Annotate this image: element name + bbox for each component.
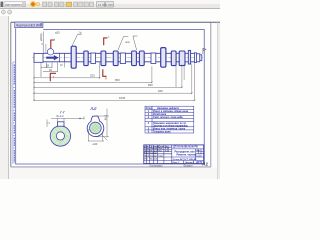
keyway arrow xyxy=(46,55,58,60)
cam lobe 5 xyxy=(139,51,144,66)
svg-text:1005: 1005 xyxy=(119,96,126,100)
svg-text:Сталь 45 ГОСТ 1050-88: Сталь 45 ГОСТ 1050-88 xyxy=(173,158,197,161)
svg-text:⌀25: ⌀25 xyxy=(55,31,60,35)
toolbar combobox xyxy=(4,2,26,7)
section G bore xyxy=(56,132,64,140)
short dims under right shaft xyxy=(176,65,184,88)
cam lobe 4 xyxy=(132,51,137,66)
canvas background xyxy=(0,0,220,179)
cam lobe 1 xyxy=(84,51,88,66)
svg-text:650: 650 xyxy=(115,78,120,82)
svg-text:1:2,5: 1:2,5 xyxy=(196,155,202,157)
svg-text:Сидор: Сидор xyxy=(150,153,157,155)
svg-text:525: 525 xyxy=(90,74,95,78)
left vertical dim xyxy=(34,32,43,102)
cam lobe 3 xyxy=(113,51,118,66)
svg-text:⌀40: ⌀40 xyxy=(93,142,98,146)
section L crosshatch xyxy=(91,123,100,133)
svg-text:Лист 1: Лист 1 xyxy=(173,162,180,164)
document tab xyxy=(15,22,43,28)
svg-text:пов: пов xyxy=(125,40,130,44)
section L cam outline xyxy=(87,116,104,137)
shaft band xyxy=(43,53,195,62)
section G circle xyxy=(50,126,70,146)
svg-text:Трещины вала: Трещины вала xyxy=(153,131,171,134)
svg-text:2ф: 2ф xyxy=(79,31,82,34)
dim line 4 xyxy=(34,65,182,88)
svg-text:Нкон: Нкон xyxy=(144,155,150,157)
toolbar combo arrow xyxy=(22,2,25,6)
svg-text:Сидор: Сидор xyxy=(150,155,157,157)
svg-text:Л-Л: Л-Л xyxy=(90,107,97,111)
panel icon 2 xyxy=(8,10,12,14)
svg-text:940: 940 xyxy=(158,89,163,93)
svg-text:г: г xyxy=(54,38,55,41)
window right border xyxy=(217,22,219,179)
journal small 3 xyxy=(151,53,156,64)
shaft dividers xyxy=(60,53,65,62)
svg-text:8+0.2: 8+0.2 xyxy=(57,114,65,118)
end cap xyxy=(34,54,43,63)
svg-text:Формат: Формат xyxy=(184,164,194,168)
section mark G bottom xyxy=(50,73,56,81)
section G dims xyxy=(47,118,84,127)
journal mid xyxy=(161,48,166,68)
right step a xyxy=(194,53,196,63)
cam lobe 6 xyxy=(171,51,176,66)
svg-text:ДП 02.06.086.00.00 РВ: ДП 02.06.086.00.00 РВ xyxy=(173,147,198,149)
section mark G top xyxy=(51,40,55,48)
left column vertical texts xyxy=(13,65,15,163)
svg-text:Козлов: Козлов xyxy=(150,159,158,161)
title block xyxy=(144,145,204,164)
parts table xyxy=(145,106,194,133)
left panel xyxy=(0,16,8,179)
svg-text:Смят. шпоноч. паза шейк.: Смят. шпоноч. паза шейк. xyxy=(153,116,184,119)
leader 2 xyxy=(118,36,128,50)
journal J1 xyxy=(71,46,76,68)
toolbar icon folder xyxy=(66,2,72,6)
right flag symbol xyxy=(203,48,206,54)
svg-text:Чертеж БЕЗ ИМ: Чертеж БЕЗ ИМ xyxy=(16,24,41,28)
centerline xyxy=(32,56,203,58)
svg-text:40.2: 40.2 xyxy=(103,114,107,120)
small dim texts above shaft xyxy=(55,31,130,44)
toolbar icons gray xyxy=(43,2,65,7)
app background right of window xyxy=(218,22,221,179)
toolbar xyxy=(0,0,220,9)
dim line 6 xyxy=(34,62,195,101)
extension line left circle xyxy=(45,44,47,53)
section mark L bottom xyxy=(103,69,107,76)
section L green circle xyxy=(90,122,102,134)
svg-text:Ткон: Ткон xyxy=(144,153,149,155)
svg-text:Распределит. вал: Распределит. вал xyxy=(175,152,196,154)
toolbar buttons right xyxy=(97,2,114,7)
section L dims xyxy=(88,109,109,142)
cam lobe 7 xyxy=(179,51,185,66)
section mark L top xyxy=(104,38,108,45)
svg-text:14 003 049: 14 003 049 xyxy=(98,3,113,7)
svg-text:Сид: Сид xyxy=(159,155,164,157)
title block texts xyxy=(173,147,202,161)
svg-text:⌀30k6: ⌀30k6 xyxy=(39,33,43,41)
svg-text:Лит: Лит xyxy=(196,150,199,152)
dim line 5 xyxy=(34,64,192,94)
dim ticks xyxy=(33,77,195,101)
svg-text:А1: А1 xyxy=(201,161,208,166)
section G keyway xyxy=(58,122,65,126)
leader 1 xyxy=(72,35,82,47)
collar xyxy=(188,50,190,64)
journal small 2 xyxy=(120,53,125,64)
panel icon 1 xyxy=(1,10,5,14)
left gost column xyxy=(13,62,16,164)
toolbar leftmost icon xyxy=(1,2,4,7)
svg-text:Пет: Пет xyxy=(159,150,163,152)
left circle lobe xyxy=(47,49,53,55)
svg-text:830: 830 xyxy=(148,83,153,87)
cam lobe 2 xyxy=(101,51,106,66)
svg-text:Автоматичe: Автоматичe xyxy=(5,3,24,7)
svg-text:Ремонтн. чертеж: Ремонтн. чертеж xyxy=(177,155,196,157)
dim ladder under left end xyxy=(41,63,58,78)
toolbar icon star xyxy=(30,1,40,7)
svg-text:л: л xyxy=(105,77,107,81)
dim line 2 xyxy=(34,63,100,79)
dim line 3 xyxy=(34,66,152,83)
right step b xyxy=(196,54,199,62)
toolbar icons gray 2 xyxy=(74,2,94,7)
right nub xyxy=(200,55,202,61)
drawing frame xyxy=(16,28,205,164)
section G hatch xyxy=(52,127,69,145)
leader 3 xyxy=(133,36,138,50)
table texts xyxy=(146,107,189,134)
svg-text:Копировал: Копировал xyxy=(150,164,163,168)
journal small 1 xyxy=(91,53,96,64)
paper sheet xyxy=(11,22,211,167)
